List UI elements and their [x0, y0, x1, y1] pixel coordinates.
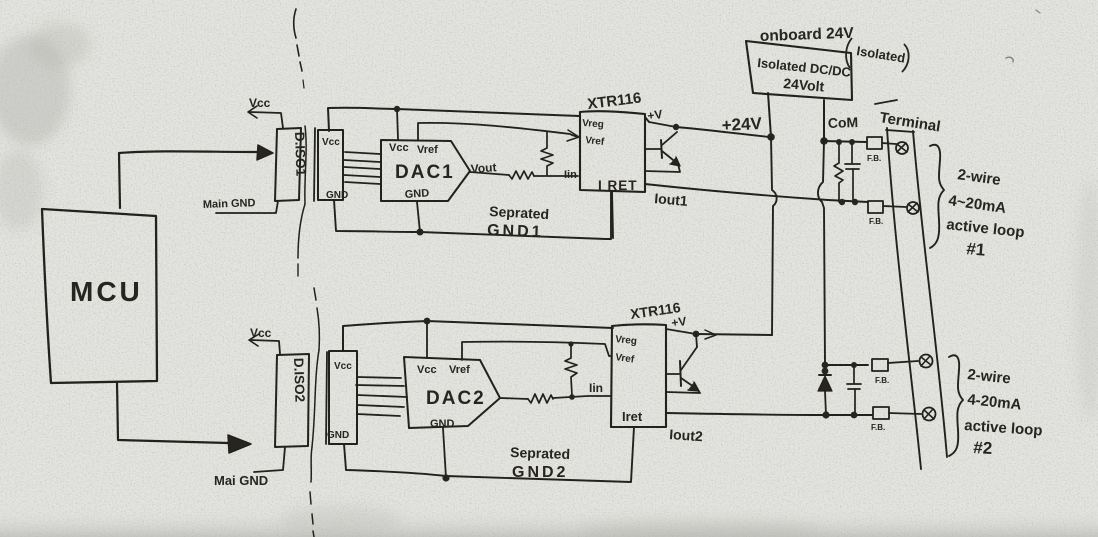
- svg-text:D.ISO1: D.ISO1: [292, 132, 309, 177]
- svg-text:CoM: CoM: [828, 114, 859, 131]
- svg-text:Vcc: Vcc: [334, 361, 352, 372]
- svg-text:Vreg: Vreg: [582, 118, 604, 130]
- svg-text:Iin: Iin: [564, 169, 577, 181]
- svg-text:Vcc: Vcc: [249, 96, 271, 110]
- svg-text:Iin: Iin: [589, 381, 603, 395]
- svg-text:Seprated: Seprated: [510, 444, 570, 462]
- svg-text:#2: #2: [973, 438, 993, 458]
- svg-text:#1: #1: [966, 239, 987, 260]
- svg-text:MCU: MCU: [70, 276, 143, 307]
- svg-text:Vcc: Vcc: [417, 364, 437, 376]
- svg-text:Vreg: Vreg: [615, 334, 638, 347]
- svg-text:Main GND: Main GND: [203, 197, 256, 211]
- svg-text:Iret: Iret: [622, 409, 643, 424]
- svg-text:Vref: Vref: [449, 364, 470, 376]
- svg-text:GND: GND: [326, 190, 348, 201]
- svg-text:+24V: +24V: [721, 114, 763, 135]
- svg-text:Vcc: Vcc: [322, 137, 340, 148]
- svg-text:D.ISO2: D.ISO2: [291, 358, 308, 403]
- svg-text:DAC1: DAC1: [395, 162, 455, 183]
- svg-text:Vcc: Vcc: [389, 142, 409, 154]
- svg-text:Seprated: Seprated: [489, 203, 550, 222]
- svg-text:+V: +V: [646, 107, 663, 123]
- svg-text:onboard 24V: onboard 24V: [760, 25, 855, 45]
- svg-text:Vout: Vout: [470, 160, 497, 176]
- svg-text:GND: GND: [327, 430, 349, 441]
- svg-text:Vref: Vref: [417, 144, 438, 156]
- svg-text:GND1: GND1: [487, 222, 544, 241]
- svg-text:GND: GND: [404, 187, 429, 201]
- svg-text:+V: +V: [670, 314, 687, 330]
- svg-text:DAC2: DAC2: [426, 388, 486, 409]
- svg-text:F.B.: F.B.: [875, 376, 889, 385]
- svg-text:GND2: GND2: [512, 464, 568, 481]
- svg-text:I RET: I RET: [598, 178, 638, 193]
- svg-text:F.B.: F.B.: [871, 423, 885, 432]
- svg-text:Vref: Vref: [585, 135, 606, 148]
- svg-text:Mai GND: Mai GND: [214, 473, 268, 488]
- svg-text:Iout2: Iout2: [669, 426, 704, 444]
- svg-text:F.B.: F.B.: [869, 217, 883, 226]
- svg-text:GND: GND: [430, 418, 455, 430]
- svg-text:Vcc: Vcc: [250, 326, 272, 340]
- svg-text:Iout1: Iout1: [654, 190, 689, 209]
- svg-text:F.B.: F.B.: [867, 154, 881, 163]
